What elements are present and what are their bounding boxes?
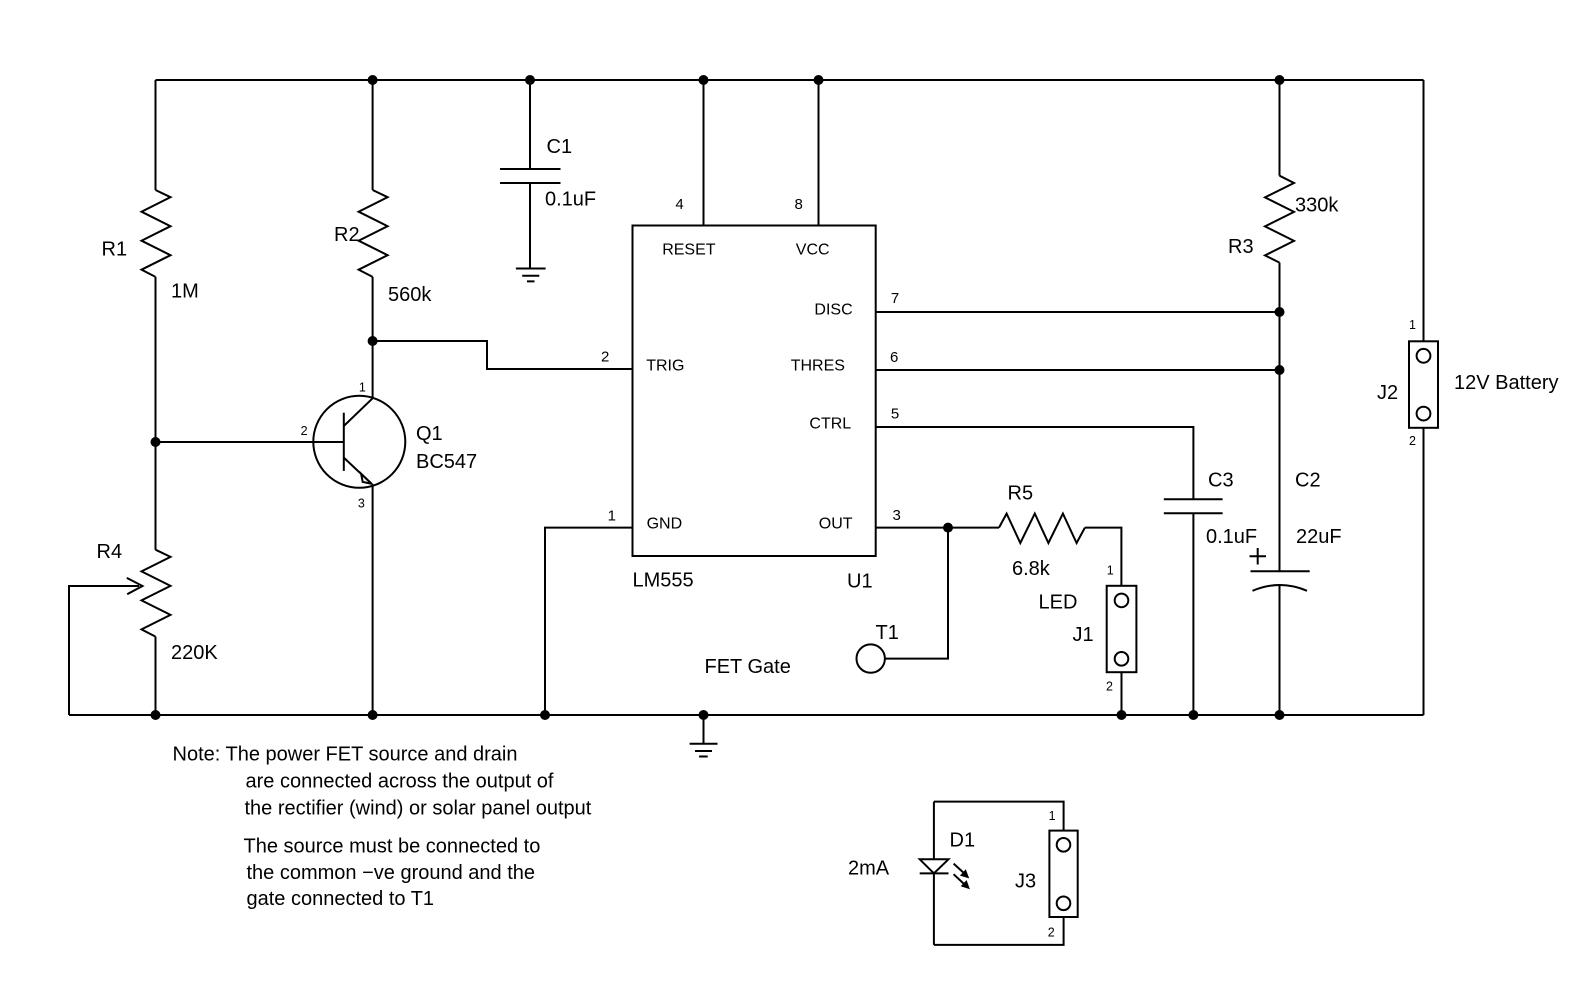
svg-text:R1: R1 <box>102 239 128 261</box>
svg-text:330k: 330k <box>1295 195 1339 217</box>
svg-text:THRES: THRES <box>791 357 845 374</box>
wire R3 bottom to DISC/THRES nodes <box>1279 263 1281 370</box>
svg-text:D1: D1 <box>950 830 976 852</box>
svg-text:2mA: 2mA <box>848 858 890 880</box>
connector J1 pin 1 circle <box>1115 594 1129 608</box>
svg-text:3: 3 <box>358 496 365 510</box>
junction OUT/T1 node <box>943 523 953 533</box>
capacitor C1 plates <box>500 169 561 183</box>
svg-text:R4: R4 <box>97 541 123 563</box>
transistor Q1 body circle <box>313 396 405 488</box>
junction top rail pin4 <box>699 75 709 85</box>
svg-text:1: 1 <box>359 381 366 395</box>
svg-text:1: 1 <box>1107 564 1114 578</box>
svg-text:GND: GND <box>647 516 683 533</box>
resistor R1 <box>142 190 171 277</box>
svg-text:7: 7 <box>891 290 899 307</box>
wire R4 wiper loop <box>69 586 139 715</box>
capacitor C2 top plate <box>1251 570 1310 572</box>
svg-text:4: 4 <box>675 196 683 213</box>
wire THRES pin 6 net <box>876 369 1280 371</box>
wire C3 bottom lead <box>1192 513 1194 715</box>
svg-text:220K: 220K <box>171 642 218 664</box>
svg-text:are connected across the outpu: are connected across the output of <box>246 771 554 793</box>
wire Q1 emitter lead <box>372 485 374 715</box>
svg-text:U1: U1 <box>847 571 873 593</box>
svg-text:2: 2 <box>1409 434 1416 448</box>
connector J2 pin 2 circle <box>1417 407 1431 421</box>
svg-text:RESET: RESET <box>662 242 716 259</box>
svg-text:2: 2 <box>1106 679 1113 693</box>
svg-text:FET Gate: FET Gate <box>705 656 791 678</box>
svg-text:TRIG: TRIG <box>646 357 684 374</box>
junction bottom rail ground symbol <box>699 710 709 720</box>
connector J3 box <box>1049 831 1077 917</box>
svg-text:R3: R3 <box>1228 236 1254 258</box>
svg-text:1: 1 <box>1409 318 1416 332</box>
wire J2 bottom lead <box>1423 428 1425 715</box>
svg-text:C3: C3 <box>1208 470 1234 492</box>
ground symbol at C1 <box>516 269 546 282</box>
svg-text:C1: C1 <box>547 136 573 158</box>
svg-text:22uF: 22uF <box>1296 526 1342 548</box>
svg-text:the rectifier (wind) or solar: the rectifier (wind) or solar panel outp… <box>245 798 592 820</box>
connector J3 pin 1 circle <box>1057 838 1071 852</box>
svg-text:1: 1 <box>608 508 616 525</box>
svg-text:the common −ve ground and the: the common −ve ground and the <box>247 862 536 884</box>
svg-text:J2: J2 <box>1377 382 1398 404</box>
svg-text:1: 1 <box>1049 809 1056 823</box>
svg-text:BC547: BC547 <box>416 451 477 473</box>
wire THRES node to C2 top <box>1279 370 1281 571</box>
connector J3 pin 2 circle <box>1057 897 1071 911</box>
wire J3 loop left lower <box>933 873 935 945</box>
wire R1 top lead <box>155 80 157 190</box>
junction bottom rail C2 <box>1275 710 1285 720</box>
wire OUT pin 3 net <box>876 527 999 529</box>
op-amp/timer U1 LM555 box <box>633 226 876 557</box>
wire J3 loop left upper <box>933 802 935 860</box>
wire DISC pin 7 net <box>876 311 1280 313</box>
transistor Q1 emitter arrowhead <box>361 474 372 484</box>
svg-text:6: 6 <box>890 349 898 366</box>
svg-text:DISC: DISC <box>814 302 852 319</box>
R4 wiper arrowhead <box>127 578 143 594</box>
junction bottom rail C3 <box>1188 710 1198 720</box>
connector J1 pin 2 circle <box>1115 652 1129 666</box>
svg-text:1M: 1M <box>171 281 199 303</box>
wire TRIG net from R2/Q1 node to pin 2 <box>373 341 633 369</box>
junction DISC/R3 node <box>1275 307 1285 317</box>
svg-text:C2: C2 <box>1295 470 1321 492</box>
svg-text:LED: LED <box>1039 592 1078 614</box>
wire pin 8 VCC lead <box>818 80 820 226</box>
connector J1 box <box>1107 586 1137 672</box>
svg-text:OUT: OUT <box>819 516 853 533</box>
junction top rail R3 <box>1275 75 1285 85</box>
junction top rail R2 <box>368 75 378 85</box>
wire J3 loop bottom <box>934 917 1064 945</box>
wire R2 top lead <box>372 80 374 190</box>
junction bottom rail R4 <box>151 710 161 720</box>
junction bottom rail Q1 emitter <box>368 710 378 720</box>
resistor R3 <box>1265 176 1294 263</box>
svg-text:6.8k: 6.8k <box>1012 558 1051 580</box>
capacitor C2 curved plate <box>1253 585 1308 591</box>
svg-text:R2: R2 <box>334 224 360 246</box>
wire R5 to J1 <box>1085 528 1122 586</box>
svg-text:12V Battery: 12V Battery <box>1454 372 1559 394</box>
transistor Q1 base bar <box>343 413 345 471</box>
svg-text:3: 3 <box>893 507 901 524</box>
svg-text:The source must be connected t: The source must be connected to <box>244 836 541 858</box>
transistor Q1 emitter stroke <box>344 458 372 484</box>
wire CTRL pin 5 net to C3 <box>876 427 1194 499</box>
junction Q1 base node <box>151 437 161 447</box>
svg-text:Note: The power FET source and: Note: The power FET source and drain <box>173 744 518 766</box>
wire GND pin 1 net <box>545 528 633 715</box>
junction top rail pin8 <box>814 75 824 85</box>
wire T1 to OUT node <box>885 528 948 659</box>
resistor R5 <box>999 514 1085 543</box>
LED D1 emission arrow 2 <box>954 874 965 884</box>
svg-text:J3: J3 <box>1015 871 1036 893</box>
capacitor C2 plus sign <box>1250 548 1267 565</box>
wire Q1 base from R1 node <box>156 441 344 443</box>
connector J2 pin 1 circle <box>1417 349 1431 363</box>
junction bottom rail J1 <box>1117 710 1127 720</box>
svg-text:CTRL: CTRL <box>809 416 851 433</box>
LED D1 cathode bar <box>920 872 949 874</box>
svg-text:LM555: LM555 <box>633 570 694 592</box>
wire C2 bottom lead <box>1279 585 1281 715</box>
svg-text:560k: 560k <box>388 284 432 306</box>
LED D1 triangle <box>920 859 949 873</box>
svg-text:0.1uF: 0.1uF <box>545 189 596 211</box>
junction top rail C1 <box>525 75 535 85</box>
ground symbol main <box>690 715 718 757</box>
wire top power rail <box>156 79 1424 81</box>
wire Q1 collector lead <box>372 341 374 398</box>
svg-text:Q1: Q1 <box>416 423 443 445</box>
connector J2 box <box>1409 341 1438 428</box>
wire J3 loop top <box>934 802 1064 831</box>
svg-text:gate connected to T1: gate connected to T1 <box>247 888 435 910</box>
wire R4 bottom lead <box>155 637 157 715</box>
wire pin 4 RESET lead <box>703 80 705 226</box>
resistor R4 body <box>142 550 171 637</box>
junction THRES/R3 node <box>1275 365 1285 375</box>
svg-text:2: 2 <box>1048 925 1055 939</box>
wire R1 bottom to R4 top <box>155 277 157 550</box>
svg-text:2: 2 <box>301 424 308 438</box>
svg-text:J1: J1 <box>1073 624 1094 646</box>
svg-text:VCC: VCC <box>796 242 830 259</box>
capacitor C3 plates <box>1164 499 1223 513</box>
svg-text:2: 2 <box>601 349 609 366</box>
wire C1 bottom lead <box>529 183 531 269</box>
svg-text:0.1uF: 0.1uF <box>1206 526 1257 548</box>
wire J2 top lead <box>1423 80 1425 341</box>
wire bottom ground rail <box>69 714 1424 716</box>
terminal T1 circle <box>857 644 885 672</box>
wire C1 top lead <box>529 80 531 169</box>
svg-text:5: 5 <box>891 406 899 423</box>
junction bottom rail GND pin <box>540 710 550 720</box>
LED D1 emission arrow 1 <box>954 864 964 873</box>
wire J1 bottom lead <box>1121 672 1123 715</box>
wire R2 bottom lead <box>372 277 374 341</box>
wire R3 top lead <box>1279 80 1281 176</box>
svg-text:R5: R5 <box>1008 483 1034 505</box>
junction R2/TRIG node <box>368 336 378 346</box>
resistor R2 <box>359 190 388 277</box>
svg-text:T1: T1 <box>876 622 899 644</box>
transistor Q1 collector stroke <box>344 398 373 426</box>
svg-text:8: 8 <box>795 196 803 213</box>
